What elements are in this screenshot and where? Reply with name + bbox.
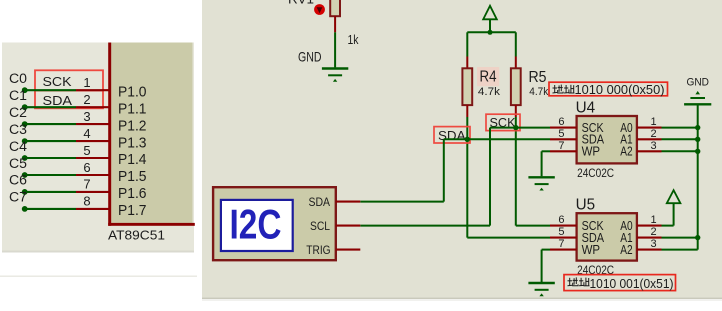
svg-text:1: 1 — [651, 214, 657, 226]
pin 6 (SCK) of U4 — [550, 127, 577, 129]
svg-text:WP: WP — [582, 145, 601, 159]
wire net C4 to pin 5 — [26, 157, 76, 159]
pin R4 top — [466, 57, 468, 69]
svg-text:24C02C: 24C02C — [577, 166, 614, 180]
pin 5 of AT89C51 — [76, 157, 109, 159]
svg-text:P1.2: P1.2 — [118, 117, 147, 134]
svg-text:7: 7 — [558, 140, 564, 152]
svg-text:3: 3 — [651, 140, 657, 152]
ground symbol right rail — [695, 91, 700, 94]
svg-text:P1.6: P1.6 — [118, 185, 147, 202]
annotation box address 0x50 — [549, 82, 668, 96]
pin 6 (SCK) of U5 — [550, 225, 577, 227]
wire ground rail vertical — [697, 105, 699, 249]
svg-text:SDA: SDA — [309, 195, 331, 209]
svg-text:2: 2 — [651, 128, 657, 140]
pin 5 (SDA) of U4 — [550, 138, 577, 140]
svg-text:SCK: SCK — [43, 74, 72, 89]
wire U5 SCK horizontal — [516, 225, 550, 227]
annotation box SCK — [486, 114, 520, 130]
svg-text:C1: C1 — [9, 88, 27, 103]
wire net C3 to pin 4 — [26, 140, 76, 142]
node C1 junction dot — [22, 104, 28, 110]
svg-text:U4: U4 — [576, 100, 596, 117]
node C0 junction dot — [22, 87, 28, 93]
svg-text:AT89C51: AT89C51 — [108, 228, 165, 243]
node C5 junction dot — [22, 172, 28, 178]
svg-text:I2C: I2C — [230, 201, 282, 248]
svg-text:2: 2 — [651, 226, 657, 238]
svg-text:SDA: SDA — [438, 128, 466, 143]
svg-text:6: 6 — [83, 160, 90, 175]
svg-text:1: 1 — [651, 116, 657, 128]
wire RV1 to ground — [334, 32, 336, 67]
text dizhi (address) — [568, 277, 590, 285]
pin R5 bottom — [515, 105, 517, 117]
pin 6 of AT89C51 — [76, 174, 109, 176]
annotation box SDA — [434, 127, 470, 143]
junction dot A0/rail — [695, 125, 700, 130]
svg-text:8: 8 — [83, 194, 90, 209]
pin 8 of AT89C51 — [76, 208, 109, 210]
svg-text:TRIG: TRIG — [306, 243, 330, 257]
wire U5 A1 to gnd rail — [662, 237, 698, 239]
EEPROM U4 24C02C body — [577, 116, 637, 163]
right schematic panel background — [202, 0, 722, 299]
svg-text:1k: 1k — [348, 33, 360, 47]
svg-text:P1.4: P1.4 — [118, 151, 147, 168]
annotation box around SCK pin 1 — [35, 70, 103, 90]
wire power stem — [489, 19, 491, 32]
svg-text:4.7k: 4.7k — [529, 86, 548, 98]
wire U5 A0 to VCC — [662, 225, 674, 227]
svg-text:3: 3 — [83, 109, 90, 124]
svg-text:C3: C3 — [9, 122, 27, 137]
svg-text:1010 000(0x50): 1010 000(0x50) — [575, 82, 665, 97]
left schematic snippet background — [2, 43, 194, 251]
wire WP of U4 to ground — [542, 150, 550, 152]
pin R5 top — [515, 57, 517, 69]
power symbol VCC arrow — [483, 6, 497, 19]
svg-text:C4: C4 — [9, 139, 28, 154]
pin 1 (A0) of U4 — [637, 127, 662, 129]
ground symbol for WP of U4 — [528, 176, 554, 178]
svg-text:1: 1 — [83, 75, 90, 90]
junction dot U5 A1/rail — [695, 235, 700, 240]
svg-text:P1.7: P1.7 — [118, 202, 147, 219]
pin 4 of AT89C51 — [76, 140, 109, 142]
wire I2C SCL to SCK net — [360, 225, 490, 227]
junction dot power bar — [488, 30, 493, 35]
pin 1 of AT89C51 — [76, 89, 109, 91]
svg-text:P1.3: P1.3 — [118, 134, 147, 151]
wire net C6 to pin 7 — [26, 191, 76, 193]
wire VCC to R4 — [466, 32, 468, 56]
wire SCK net horizontal to U4 — [490, 127, 550, 129]
junction dot A2/rail — [695, 149, 700, 154]
svg-text:WP: WP — [582, 243, 601, 257]
svg-text:SDA: SDA — [43, 93, 73, 108]
wire R4 to SDA net and down to U5 SDA — [466, 117, 468, 238]
svg-text:C0: C0 — [9, 71, 27, 86]
junction dot A1/rail — [695, 137, 700, 142]
node C2 junction dot — [22, 121, 28, 127]
probe marker on RV1 — [314, 4, 325, 15]
pin 5 (SDA) of U5 — [550, 237, 577, 239]
pin 3 (A2) of U4 — [637, 150, 662, 152]
wire SDA net horizontal to U4 — [444, 138, 550, 140]
wire U5 A2 to gnd rail — [662, 249, 698, 251]
faint separator line — [0, 276, 197, 277]
annotation box around SDA pin 2 — [35, 90, 103, 108]
pin 7 (WP) of U4 — [550, 150, 577, 152]
pin SDA of I2C — [336, 201, 361, 203]
svg-text:P1.1: P1.1 — [118, 100, 147, 117]
pin 7 of AT89C51 — [76, 191, 109, 193]
wire net C0 to pin 1 — [26, 89, 76, 91]
svg-text:P1.5: P1.5 — [118, 168, 147, 185]
power symbol VCC for U5 A0 — [667, 190, 681, 203]
wire power bar — [467, 31, 516, 33]
pin 3 (A2) of U5 — [637, 249, 662, 251]
MCU U? AT89C51 body — [111, 43, 192, 224]
svg-text:3: 3 — [651, 238, 657, 250]
svg-text:4: 4 — [83, 126, 90, 141]
junction dot SCK/R5 — [513, 125, 518, 130]
wire R5 to SCK net and down to U5 SCK — [515, 117, 517, 226]
pin 2 of AT89C51 — [76, 106, 109, 108]
svg-text:7: 7 — [558, 238, 564, 250]
wire net C1 to pin 2 — [26, 106, 76, 108]
svg-text:GND: GND — [298, 49, 322, 65]
svg-text:6: 6 — [558, 214, 564, 226]
svg-text:A2: A2 — [620, 243, 632, 257]
text dizhi (address) — [553, 85, 575, 93]
pin 7 (WP) of U5 — [550, 249, 577, 251]
I2C inner label box — [221, 200, 293, 251]
svg-text:U5: U5 — [576, 197, 596, 214]
svg-text:R4: R4 — [480, 69, 497, 86]
pin 2 (A1) of U4 — [637, 138, 662, 140]
svg-text:5: 5 — [83, 143, 90, 158]
wire VCC to R5 — [515, 32, 517, 56]
wire net C5 to pin 6 — [26, 174, 76, 176]
svg-text:GND: GND — [687, 77, 710, 89]
svg-text:C2: C2 — [9, 105, 27, 120]
resistor R4 — [462, 68, 472, 105]
svg-text:SCL: SCL — [310, 219, 330, 233]
ground symbol for WP of U5 — [528, 282, 554, 284]
svg-text:C5: C5 — [9, 156, 27, 171]
node C4 junction dot — [22, 155, 28, 161]
pin TRIG of I2C — [336, 249, 361, 251]
svg-text:RV1: RV1 — [288, 0, 314, 6]
pin 3 of AT89C51 — [76, 123, 109, 125]
node C7 junction dot — [22, 206, 28, 212]
wire I2C SDA to SDA net — [360, 201, 444, 203]
pin 2 (A1) of U5 — [637, 237, 662, 239]
svg-text:4.7k: 4.7k — [478, 86, 501, 98]
EEPROM U5 24C02C body — [577, 213, 637, 260]
wire net C2 to pin 3 — [26, 123, 76, 125]
wire U5 SDA horizontal — [467, 237, 550, 239]
resistor R5 — [511, 68, 521, 105]
svg-text:7: 7 — [83, 177, 90, 192]
svg-text:1010 001(0x51): 1010 001(0x51) — [590, 276, 674, 291]
resistor RV1 body (cropped) — [330, 0, 340, 16]
annotation box address 0x51 — [564, 275, 676, 291]
svg-text:A2: A2 — [620, 145, 632, 159]
node C6 junction dot — [22, 189, 28, 195]
pin R4 bottom — [466, 105, 468, 117]
svg-text:P1.0: P1.0 — [118, 83, 147, 100]
svg-text:6: 6 — [558, 116, 564, 128]
svg-text:5: 5 — [558, 226, 564, 238]
pin of RV1 — [334, 16, 336, 32]
svg-text:C7: C7 — [9, 190, 27, 205]
wire WP of U5 to ground — [542, 249, 550, 251]
svg-text:C6: C6 — [9, 173, 27, 188]
node C3 junction dot — [22, 138, 28, 144]
svg-text:5: 5 — [558, 128, 564, 140]
svg-text:2: 2 — [83, 92, 90, 107]
svg-text:R5: R5 — [529, 69, 547, 86]
wire U4 A1 to gnd rail — [662, 138, 698, 140]
wire U4 A2 to gnd rail — [662, 150, 698, 152]
pin 1 (A0) of U5 — [637, 225, 662, 227]
wire U4 A0 to gnd rail — [662, 127, 698, 129]
wire net C7 to pin 8 — [26, 208, 76, 210]
junction dot SDA/R4 — [465, 137, 470, 142]
pin SCL of I2C — [336, 225, 361, 227]
I2C debugger block body — [213, 187, 336, 260]
highlight behind R4 label — [477, 67, 499, 86]
ground symbol under RV1 — [322, 67, 348, 69]
